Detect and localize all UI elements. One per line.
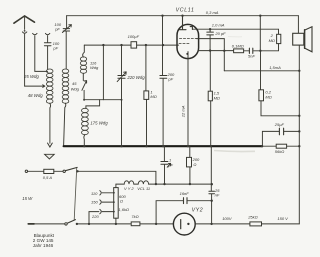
svg-text:110: 110 <box>91 191 98 196</box>
capacitor 16nF <box>184 198 188 204</box>
antenna socket right <box>45 33 49 34</box>
wire grid bus corner down to coil L3 <box>83 45 85 57</box>
svg-text:25µF: 25µF <box>274 122 285 127</box>
wire VCL11 triode anode line <box>192 29 278 34</box>
svg-text:150: 150 <box>91 199 98 204</box>
tube VCL11 <box>177 16 199 59</box>
wire 2MOhm bottom to 5nF row <box>254 44 279 51</box>
wire dropper bottom <box>115 218 117 224</box>
svg-text:7kΩ: 7kΩ <box>131 214 138 219</box>
voltage selector socket 150 <box>100 200 101 204</box>
wire socket 150 to dropper <box>102 201 114 203</box>
heater VY2 <box>124 181 134 184</box>
wire coil L3 lead down to junction <box>83 90 85 99</box>
switch lower pole <box>65 220 76 225</box>
capacitor 5nF <box>249 48 252 53</box>
wire 5nF junction down to 0.2MOhm <box>260 51 262 90</box>
scan smudge <box>214 151 255 152</box>
wire heater line to rectifier branch <box>149 183 212 185</box>
capacitor 25nF <box>209 191 215 194</box>
resistor 0.2MOhm <box>259 90 264 101</box>
wire output line 1.5mA to speaker <box>224 70 299 72</box>
wire right socket to capacitor 100pF <box>47 36 49 43</box>
coil L4 175 Wdg <box>82 108 89 134</box>
svg-text:25kΩ: 25kΩ <box>247 214 258 219</box>
wire socket 110 to dropper <box>102 192 114 194</box>
resistor dropper 600 Ohm / 1.6kOhm <box>114 188 119 219</box>
coil L1 antenna 25+48 Wdg <box>46 69 53 103</box>
coil L3 116 Wdg <box>80 57 86 73</box>
antenna socket middle <box>33 33 37 34</box>
capacitor 25uF <box>279 128 283 135</box>
adjustable core arrow 45 Wdg <box>82 81 87 91</box>
svg-text:V Y 2: V Y 2 <box>124 186 134 191</box>
tube VY2 <box>173 213 195 235</box>
fuse 0.5A <box>44 169 54 173</box>
variable capacitor 220 Wdg tuning <box>117 72 126 82</box>
resistor 56kOhm <box>262 144 299 148</box>
svg-text:nF: nF <box>215 193 220 198</box>
svg-text:12 mA: 12 mA <box>180 105 185 117</box>
svg-text:pF: pF <box>167 77 173 82</box>
node antenna tap arrow into coil L1 <box>25 85 45 88</box>
mains terminal lower <box>28 223 34 225</box>
voltage selector socket 220 <box>100 209 101 213</box>
svg-text:MΩ: MΩ <box>214 95 220 100</box>
wire speaker top drop <box>297 16 299 34</box>
svg-text:5nF: 5nF <box>248 54 255 59</box>
thick HT- rail <box>64 145 263 147</box>
wire lower mains line to tube VY2 <box>77 223 173 225</box>
wire coil L1 bottom to ground <box>49 103 52 143</box>
coil L2 145 <box>62 69 69 103</box>
svg-text:25 Wdg: 25 Wdg <box>23 74 39 79</box>
wire VCL11 cathode to HT- rail <box>187 59 189 147</box>
capacitor 200pF <box>160 76 167 79</box>
wire right vertical from speaker to bottom corner <box>298 45 300 224</box>
svg-text:MΩ: MΩ <box>150 94 156 99</box>
wire socket 220 to dropper <box>102 211 114 213</box>
svg-text:150 V: 150 V <box>277 216 288 221</box>
antenna <box>14 16 35 33</box>
svg-text:1,5mA: 1,5mA <box>269 65 281 70</box>
svg-text:175 Wdg: 175 Wdg <box>90 120 108 125</box>
wire coil L3 to adjustable core <box>82 73 84 80</box>
trimmer capacitor 100pF <box>62 25 71 33</box>
wire fuse to switch <box>54 170 63 172</box>
wire capacitor 100pF to coil L1 top <box>47 46 49 69</box>
resistor 200 Ohm <box>187 146 192 184</box>
svg-text:100µF: 100µF <box>128 34 140 39</box>
svg-text:0,1MΩ: 0,1MΩ <box>232 44 244 49</box>
title Blaupunkt <box>33 233 55 248</box>
svg-text:Wdg: Wdg <box>90 65 99 70</box>
svg-text:MΩ: MΩ <box>265 94 271 99</box>
wire 260 vertical top rail to 5nF junction <box>259 16 261 51</box>
wire switch to heater drop <box>78 171 156 184</box>
svg-text:1,6kΩ: 1,6kΩ <box>118 207 129 212</box>
svg-text:VY2: VY2 <box>192 208 204 214</box>
svg-text:15 W: 15 W <box>22 196 33 201</box>
wire tuning cap line <box>121 45 123 146</box>
wire grid-bus drop vertical <box>102 45 104 100</box>
capacitor 100pF antenna <box>44 43 51 46</box>
wire 16nF branch <box>156 201 212 224</box>
svg-text:220: 220 <box>91 214 99 219</box>
svg-text:Ω: Ω <box>120 199 123 204</box>
switch upper pole <box>63 167 77 172</box>
svg-text:20 pF: 20 pF <box>214 31 226 36</box>
svg-text:Jahr 1946: Jahr 1946 <box>33 243 54 248</box>
svg-text:1,0 mA: 1,0 mA <box>212 22 225 27</box>
svg-text:48 Wdg: 48 Wdg <box>28 93 43 98</box>
speaker <box>293 27 312 52</box>
wire dropper top to heater chain <box>116 184 124 188</box>
wire mains upper to fuse <box>28 170 44 172</box>
resistor 2MOhm <box>277 34 281 43</box>
wire grid bus <box>84 44 178 46</box>
svg-text:MΩ: MΩ <box>269 38 275 43</box>
wire top HT rail <box>67 15 299 17</box>
svg-text:0,3 mA: 0,3 mA <box>206 10 219 15</box>
wire 1.5MOhm to HT- rail and below <box>210 101 213 224</box>
voltage selector socket 110 <box>100 191 101 195</box>
svg-text:220 Wdg: 220 Wdg <box>126 75 145 80</box>
svg-text:µF: µF <box>168 162 173 167</box>
wire 25uF branch <box>262 131 299 146</box>
svg-text:VCL11: VCL11 <box>176 7 195 13</box>
wire top rail corner to trimmer <box>66 16 68 29</box>
wire between heaters <box>134 183 138 185</box>
capacitor 100uF <box>131 42 137 48</box>
heater VCL11 <box>138 181 148 184</box>
wire mains lower to switch <box>34 223 65 225</box>
wire VY2 anode to 100V line <box>195 223 250 225</box>
wire coil L4 bottom to HT- rail <box>83 135 86 147</box>
svg-text:0,5 A: 0,5 A <box>43 175 53 180</box>
svg-text:45: 45 <box>72 81 77 86</box>
wire middle socket to coil L1 top <box>35 36 48 72</box>
wire coil L2 bottom to HT- rail <box>64 103 66 146</box>
wire trimmer to coil L2 top <box>65 31 67 68</box>
resistor 7kOhm <box>131 222 140 226</box>
wire 20pF vertical grid leak chain <box>209 29 211 91</box>
svg-text:Wdg: Wdg <box>71 86 80 91</box>
ground <box>45 143 55 159</box>
wire 150V line to right vertical <box>262 223 300 225</box>
wire coil L4 top jog <box>86 100 100 109</box>
svg-text:pF: pF <box>54 27 60 32</box>
wire 0.2MOhm bottom to right vertical <box>261 101 299 116</box>
wire VCL11 grid2 line <box>197 39 225 71</box>
wire junction horizontal to tuning cap line <box>84 99 121 101</box>
resistor 1MOhm <box>144 45 149 146</box>
wire 200pF line top-rail to HT- rail <box>162 16 165 147</box>
capacitor 1uF <box>161 162 171 168</box>
svg-text:56kΩ: 56kΩ <box>275 149 285 154</box>
capacitor 20pF <box>207 32 214 35</box>
resistor 0.1MOhm <box>199 49 250 53</box>
switch link <box>74 168 77 220</box>
mains terminal upper <box>25 170 27 172</box>
resistor 25kOhm <box>250 222 262 226</box>
wire 1uF leads <box>163 146 165 184</box>
svg-text:pF: pF <box>52 46 58 51</box>
svg-text:16nF: 16nF <box>180 191 190 196</box>
resistor 1.5MOhm <box>208 91 212 101</box>
svg-text:100V: 100V <box>222 216 232 221</box>
svg-text:Ω: Ω <box>193 162 196 167</box>
wire 220V tap drop <box>89 212 99 224</box>
svg-text:VCL 11: VCL 11 <box>137 186 150 191</box>
wire antenna down-lead to coil tap <box>24 34 26 86</box>
